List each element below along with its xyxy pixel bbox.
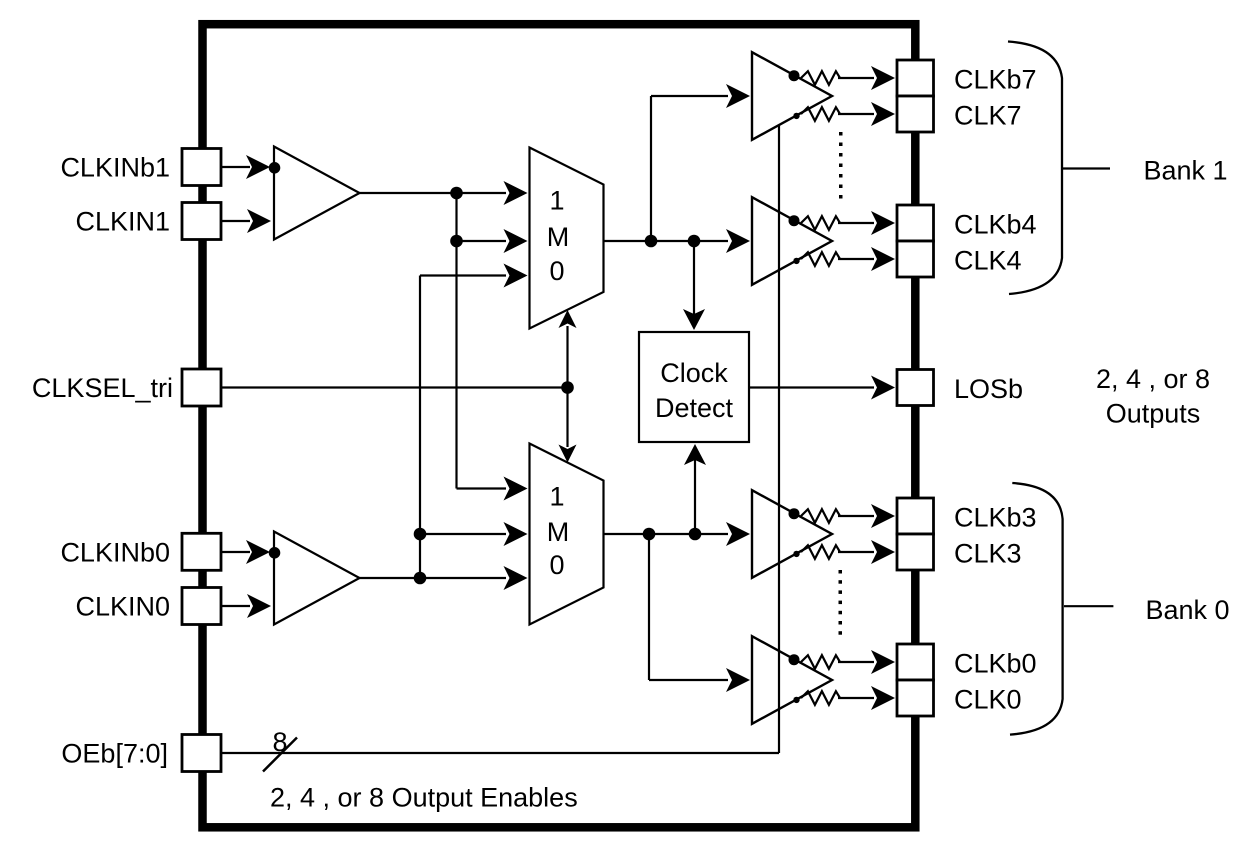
pin CLKIN1 <box>182 203 221 240</box>
svg-text:8: 8 <box>272 727 287 757</box>
svg-text:Bank 1: Bank 1 <box>1144 155 1228 185</box>
node CLKINb0 input dot <box>269 547 281 559</box>
node buffer D lower tap dot <box>793 697 799 703</box>
pin CLK4 <box>897 241 934 277</box>
pin CLKb7 <box>897 60 934 96</box>
svg-text:CLK3: CLK3 <box>954 539 1022 569</box>
mux M1 (upper 1/M/0 selector) <box>530 148 604 329</box>
chip outline border <box>203 24 916 827</box>
wire CLKINb1 to U1 <box>219 155 270 179</box>
node M2 out junction 1 <box>643 528 656 541</box>
output buffer D <box>752 636 832 724</box>
node buffer D upper tap dot <box>789 654 800 665</box>
wire U2 output to M2 input 0 <box>360 566 528 590</box>
svg-text:M: M <box>547 517 570 547</box>
resistor upper branch of buffer A <box>801 66 895 90</box>
svg-text:CLK7: CLK7 <box>954 101 1022 131</box>
output buffer C <box>752 490 832 578</box>
node CLKSEL junction <box>561 381 574 394</box>
tick Bank 1 <box>1063 167 1110 169</box>
pin CLKIN0 <box>182 588 221 625</box>
svg-text:Clock: Clock <box>660 358 728 388</box>
tick Bank 0 <box>1064 605 1113 607</box>
bus width slash <box>263 738 297 772</box>
mux M2 (lower 1/M/0 selector) <box>530 444 604 625</box>
wire rise to clock detect bottom <box>684 444 706 534</box>
pin CLK7 <box>897 96 934 132</box>
input buffer U1 (CLKIN1 pair) <box>274 147 360 240</box>
node M2-M branch junction <box>414 528 427 541</box>
wire CLKINb0 to U2 <box>219 540 270 564</box>
ellipsis between bank1 buffers <box>839 132 843 199</box>
node buffer B upper tap dot <box>789 215 800 226</box>
node buffer C lower tap dot <box>793 551 799 557</box>
svg-text:M: M <box>547 222 570 252</box>
svg-text:2, 4 , or 8 Output Enables: 2, 4 , or 8 Output Enables <box>270 783 578 813</box>
svg-text:1: 1 <box>549 482 564 512</box>
resistor upper branch of buffer C <box>801 504 895 528</box>
pin OEb[7:0] <box>182 735 221 772</box>
svg-text:CLKIN1: CLKIN1 <box>75 207 170 237</box>
wire drop to clock detect top <box>683 241 705 330</box>
wire M2 input M branch <box>420 522 528 546</box>
node U2 out junction <box>414 572 427 585</box>
node U1 out junction <box>450 187 463 200</box>
clock detect block <box>639 332 749 442</box>
brace Bank 0 <box>1010 483 1063 735</box>
node M1-M branch junction <box>450 235 463 248</box>
resistor lower branch of buffer A <box>801 102 895 126</box>
svg-text:CLKINb1: CLKINb1 <box>60 153 170 183</box>
svg-text:LOSb: LOSb <box>954 374 1023 404</box>
pin CLKb3 <box>897 498 934 534</box>
pin CLK3 <box>897 534 934 570</box>
svg-text:CLK0: CLK0 <box>954 685 1022 715</box>
resistor lower branch of buffer D <box>801 686 895 710</box>
resistor upper branch of buffer B <box>801 211 895 235</box>
ellipsis between bank0 buffers <box>839 570 843 635</box>
wire mux select double arrow <box>559 310 577 463</box>
wire CLKIN1 to U1 <box>219 209 271 233</box>
node M1 out junction 1 <box>645 235 658 248</box>
label 2,4,or 8 Outputs <box>1096 364 1210 429</box>
pin CLK0 <box>897 680 934 716</box>
pin CLKb4 <box>897 205 934 241</box>
wire drop to buffer D input <box>649 534 750 692</box>
node M2 out junction 2 <box>689 528 702 541</box>
svg-text:CLKb3: CLKb3 <box>954 503 1037 533</box>
svg-text:CLKINb0: CLKINb0 <box>60 537 170 567</box>
svg-text:Detect: Detect <box>655 393 734 423</box>
pin CLKb0 <box>897 644 934 680</box>
wire U2 output riser up to M1 input 0 <box>420 264 528 579</box>
brace Bank 1 <box>1008 42 1062 295</box>
output buffer A <box>752 52 832 140</box>
node CLKINb1 input dot <box>269 162 281 174</box>
wire CLKSEL_tri select line <box>219 386 568 388</box>
wire M1 output to buffer A <box>604 229 751 253</box>
pin CLKINb0 <box>182 533 221 570</box>
input buffer U2 (CLKIN0 pair) <box>274 532 360 625</box>
svg-text:0: 0 <box>549 256 564 286</box>
wire M2 output to buffer C <box>604 522 751 546</box>
wire riser to buffer A input <box>651 84 750 241</box>
pin LOSb <box>897 370 934 406</box>
svg-text:2, 4 , or 8: 2, 4 , or 8 <box>1096 364 1210 394</box>
svg-text:OEb[7:0]: OEb[7:0] <box>61 739 168 769</box>
svg-text:CLKIN0: CLKIN0 <box>75 592 170 622</box>
pin CLKSEL_tri <box>182 369 221 406</box>
wire CLKIN0 to U2 <box>219 594 271 618</box>
node buffer C upper tap dot <box>789 508 800 519</box>
pin CLKINb1 <box>182 149 221 186</box>
node buffer A upper tap dot <box>789 70 800 81</box>
wire U1 output to M1 input 1 <box>360 181 528 205</box>
svg-text:Bank 0: Bank 0 <box>1146 595 1230 625</box>
svg-text:CLK4: CLK4 <box>954 246 1022 276</box>
svg-text:CLKb7: CLKb7 <box>954 65 1037 95</box>
node M1 out junction 2 <box>688 235 701 248</box>
svg-text:CLKb0: CLKb0 <box>954 649 1037 679</box>
wire OEb[7:0] enable bus <box>219 125 779 753</box>
resistor upper branch of buffer D <box>801 650 895 674</box>
svg-text:CLKb4: CLKb4 <box>954 210 1037 240</box>
node buffer B lower tap dot <box>793 258 799 264</box>
svg-text:1: 1 <box>549 186 564 216</box>
resistor lower branch of buffer C <box>801 540 895 564</box>
node buffer A lower tap dot <box>793 113 799 119</box>
wire clock detect to LOSb pin <box>749 376 895 400</box>
svg-text:Outputs: Outputs <box>1106 399 1201 429</box>
resistor lower branch of buffer B <box>801 247 895 271</box>
svg-text:0: 0 <box>549 550 564 580</box>
wire U1 output riser down to M2 input 1 <box>457 193 528 501</box>
output buffer B <box>752 197 832 285</box>
wire M1 input M branch <box>457 229 528 253</box>
svg-text:CLKSEL_tri: CLKSEL_tri <box>32 373 173 403</box>
